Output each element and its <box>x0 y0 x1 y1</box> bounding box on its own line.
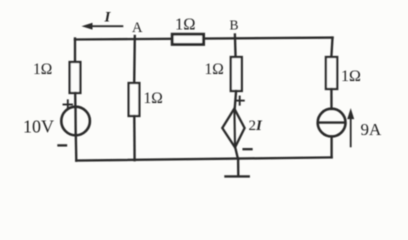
wire dependent source to bottom rail <box>235 147 238 159</box>
wire voltage source to bottom rail <box>75 135 78 161</box>
wire bottom horizontal (ground rail) <box>76 157 331 160</box>
resistor R4 1ohm (branch below B) <box>231 57 242 91</box>
dependent current source 2I (diamond) <box>222 109 244 148</box>
dependent source internal vertical line <box>233 110 236 147</box>
svg-text:1Ω: 1Ω <box>33 61 52 78</box>
svg-text:2I: 2I <box>249 118 264 134</box>
svg-text:1Ω: 1Ω <box>205 61 224 78</box>
svg-text:A: A <box>132 20 143 36</box>
svg-text:9A: 9A <box>361 120 383 139</box>
svg-text:1Ω: 1Ω <box>175 15 196 34</box>
voltage source internal vertical line <box>74 107 77 135</box>
ground stub <box>237 159 240 177</box>
resistor R2 1ohm (middle branch) <box>129 83 140 116</box>
wire top horizontal (node A-B rail) <box>75 38 333 40</box>
svg-text:1Ω: 1Ω <box>341 68 361 85</box>
plus sign of dependent source <box>236 97 244 105</box>
wire R4 to dependent source <box>235 91 237 110</box>
wire R2 to bottom rail <box>133 116 136 160</box>
svg-text:10V: 10V <box>23 117 54 137</box>
minus sign of voltage source US <box>59 144 67 146</box>
resistor R5 1ohm (right branch) <box>326 57 337 89</box>
resistor R3 1ohm (horizontal, between A and B) <box>172 34 203 44</box>
plus sign of voltage source US <box>64 100 73 108</box>
ground bar <box>226 175 249 177</box>
current source IS 9A (circle) <box>318 109 346 137</box>
resistor R1 1ohm (left branch) <box>70 62 81 93</box>
svg-text:1Ω: 1Ω <box>144 90 163 107</box>
minus sign of dependent source <box>244 148 252 150</box>
current source internal horizontal line <box>318 121 345 123</box>
voltage source US 10V (circle) <box>61 107 90 136</box>
wire R1 to voltage source <box>74 93 77 107</box>
svg-text:I: I <box>104 10 112 26</box>
svg-text:B: B <box>230 18 239 33</box>
wire node B down to R4 <box>234 35 237 59</box>
wire right branch top segment <box>331 38 332 58</box>
wire middle branch (node A down) <box>133 36 136 84</box>
wire current source to bottom rail <box>330 137 332 158</box>
wire left branch top segment <box>74 39 76 64</box>
current arrow I (pointing left) <box>83 23 122 29</box>
arrow for 9A direction (pointing up) <box>348 110 354 147</box>
wire R5 to current source <box>330 89 332 109</box>
